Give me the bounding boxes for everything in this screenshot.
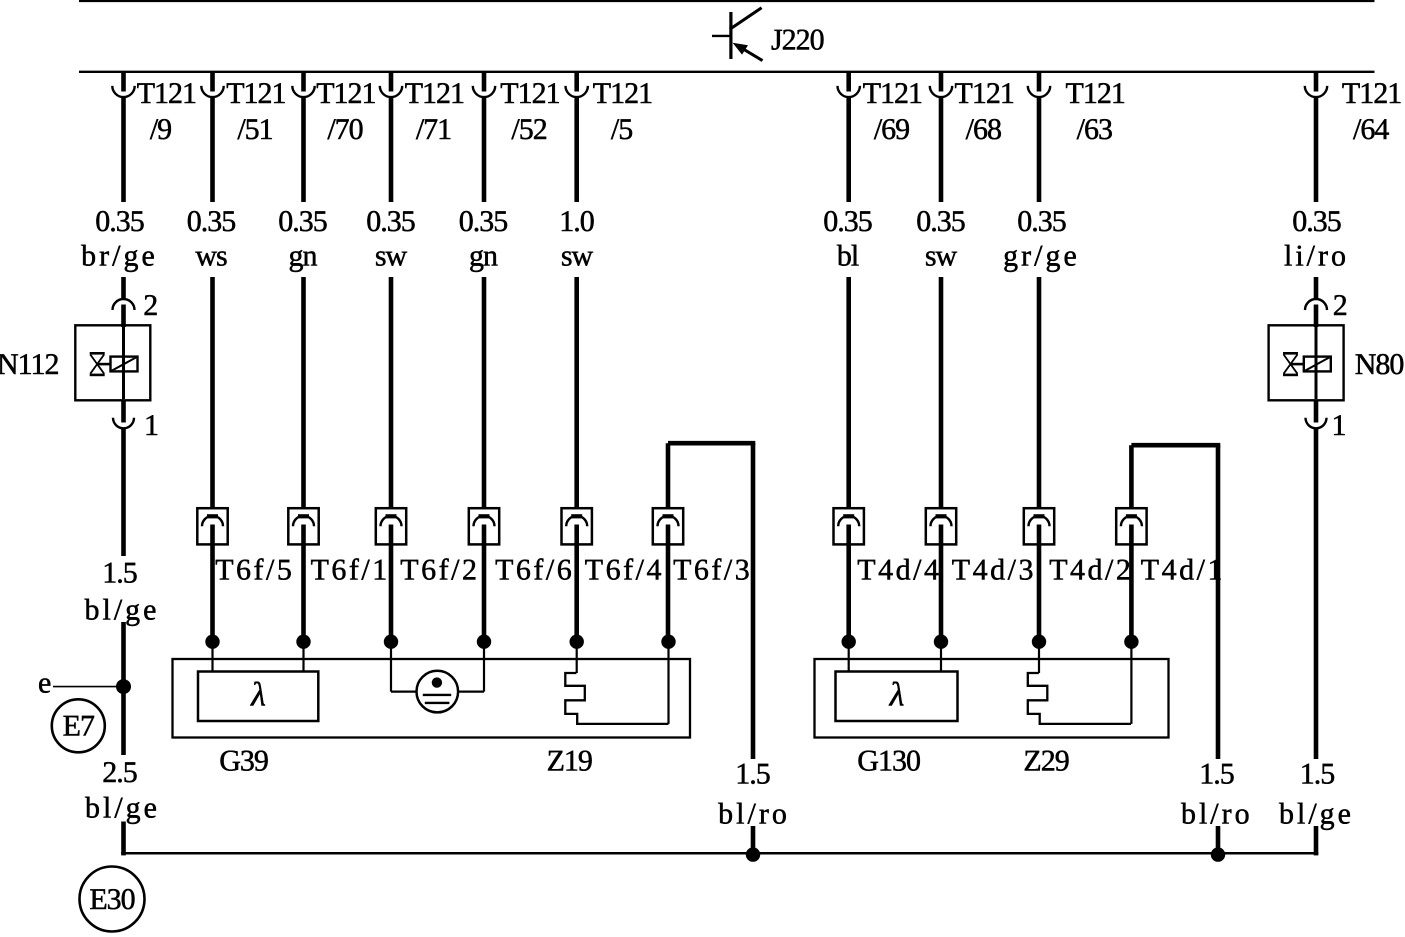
- svg-text:2: 2: [1333, 289, 1347, 322]
- svg-text:gn: gn: [469, 240, 498, 273]
- svg-text:/70: /70: [327, 113, 362, 146]
- svg-text:gr/ge: gr/ge: [1003, 240, 1080, 273]
- svg-text:/68: /68: [966, 113, 1001, 146]
- svg-text:/64: /64: [1353, 113, 1389, 146]
- svg-text:1.5: 1.5: [1199, 758, 1234, 791]
- svg-text:T121: T121: [863, 77, 922, 110]
- svg-text:T121: T121: [1066, 77, 1125, 110]
- svg-text:/69: /69: [874, 113, 909, 146]
- svg-text:bl/ge: bl/ge: [85, 594, 160, 627]
- svg-text:T6f/4: T6f/4: [585, 554, 664, 587]
- svg-text:li/ro: li/ro: [1284, 240, 1349, 273]
- svg-text:1: 1: [144, 409, 158, 442]
- svg-text:bl/ge: bl/ge: [1279, 797, 1354, 830]
- svg-text:sw: sw: [375, 240, 408, 273]
- svg-text:bl/ge: bl/ge: [85, 792, 160, 825]
- svg-text:T4d/3: T4d/3: [952, 554, 1036, 587]
- svg-text:0.35: 0.35: [278, 205, 327, 238]
- svg-text:T6f/1: T6f/1: [311, 554, 390, 587]
- svg-text:T121: T121: [1342, 77, 1401, 110]
- svg-text:T121: T121: [226, 77, 285, 110]
- svg-text:T121: T121: [500, 77, 559, 110]
- svg-text:E30: E30: [89, 883, 134, 916]
- svg-text:E7: E7: [63, 710, 95, 743]
- svg-text:2.5: 2.5: [102, 756, 137, 789]
- svg-text:G130: G130: [857, 745, 920, 778]
- svg-text:T6f/2: T6f/2: [400, 554, 479, 587]
- svg-text:/9: /9: [150, 113, 171, 146]
- svg-text:0.35: 0.35: [366, 205, 415, 238]
- svg-text:0.35: 0.35: [823, 205, 872, 238]
- svg-text:0.35: 0.35: [187, 205, 236, 238]
- svg-text:/52: /52: [511, 113, 546, 146]
- svg-text:1.0: 1.0: [559, 205, 594, 238]
- svg-text:1.5: 1.5: [102, 557, 137, 590]
- svg-text:0.35: 0.35: [459, 205, 508, 238]
- svg-text:T121: T121: [316, 77, 375, 110]
- svg-text:0.35: 0.35: [916, 205, 965, 238]
- svg-text:T4d/4: T4d/4: [857, 554, 941, 587]
- svg-text:/51: /51: [237, 113, 272, 146]
- svg-text:1.5: 1.5: [735, 758, 770, 791]
- svg-text:T4d/2: T4d/2: [1049, 554, 1133, 587]
- svg-text:1.5: 1.5: [1300, 758, 1335, 791]
- svg-text:gn: gn: [289, 240, 318, 273]
- svg-text:G39: G39: [219, 745, 268, 778]
- svg-text:bl: bl: [837, 240, 859, 273]
- svg-text:/63: /63: [1077, 113, 1112, 146]
- svg-text:0.35: 0.35: [1292, 205, 1341, 238]
- svg-text:T121: T121: [593, 77, 652, 110]
- svg-text:ws: ws: [195, 240, 227, 273]
- svg-text:bl/ro: bl/ro: [718, 797, 790, 830]
- svg-text:2: 2: [143, 289, 157, 322]
- svg-text:Z29: Z29: [1023, 745, 1068, 778]
- svg-text:T6f/5: T6f/5: [215, 554, 294, 587]
- svg-text:0.35: 0.35: [1017, 205, 1066, 238]
- svg-text:T6f/3: T6f/3: [673, 554, 752, 587]
- svg-text:e: e: [38, 667, 51, 700]
- svg-text:T6f/6: T6f/6: [495, 554, 574, 587]
- svg-text:br/ge: br/ge: [81, 240, 158, 273]
- svg-text:bl/ro: bl/ro: [1181, 797, 1253, 830]
- svg-text:λ: λ: [889, 677, 904, 714]
- svg-text:/5: /5: [611, 113, 632, 146]
- svg-text:J220: J220: [771, 24, 824, 57]
- svg-text:T121: T121: [405, 77, 464, 110]
- svg-text:λ: λ: [250, 677, 265, 714]
- svg-text:sw: sw: [561, 240, 594, 273]
- svg-text:N112: N112: [0, 348, 59, 381]
- svg-text:T4d/1: T4d/1: [1141, 554, 1225, 587]
- svg-text:Z19: Z19: [547, 745, 592, 778]
- svg-text:T121: T121: [137, 77, 196, 110]
- svg-text:0.35: 0.35: [95, 205, 144, 238]
- svg-text:1: 1: [1332, 409, 1346, 442]
- svg-text:N80: N80: [1355, 348, 1404, 381]
- svg-text:T121: T121: [955, 77, 1014, 110]
- svg-text:/71: /71: [416, 113, 451, 146]
- svg-text:sw: sw: [925, 240, 958, 273]
